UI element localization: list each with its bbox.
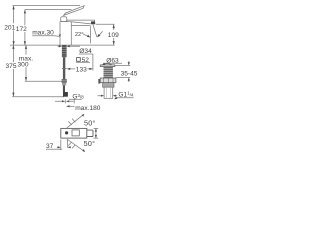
arrowhead G114 underline [114, 97, 117, 100]
angle ref horizontal [71, 25, 90, 27]
svg-text:max.180: max.180 [75, 105, 101, 112]
svg-text:52: 52 [82, 57, 90, 64]
svg-text:35-45: 35-45 [121, 70, 138, 77]
svg-text:172: 172 [16, 26, 27, 33]
arrowhead 22deg leader [87, 35, 90, 38]
hose end dim lines [55, 100, 74, 102]
svg-text:133: 133 [76, 67, 87, 74]
svg-text:37: 37 [46, 143, 54, 150]
arrowhead plan dim down [95, 135, 97, 138]
arrowhead dia34 right [67, 45, 70, 47]
connector block lower [62, 83, 66, 86]
arrowhead 3545 bottom [128, 78, 130, 81]
svg-text:50°: 50° [84, 139, 96, 148]
plan dim line [95, 128, 97, 138]
connector block upper [62, 79, 67, 83]
arrowhead 109 down [113, 41, 115, 45]
plan body rect [61, 128, 87, 138]
label sq52 [77, 58, 81, 62]
arrowhead 172 down [24, 41, 26, 45]
dimension line max300 [25, 45, 27, 81]
extension line max300 bottom [25, 80, 65, 82]
svg-text:Ø63: Ø63 [106, 58, 119, 65]
supply stem [63, 57, 65, 79]
swivel tick upper 2 [72, 119, 75, 123]
svg-text:G11/4: G11/4 [118, 91, 133, 99]
extension line 375 bottom [12, 96, 64, 98]
hose end fitting [63, 92, 68, 97]
arrowhead 375 down [12, 93, 14, 97]
plan hole dot [65, 131, 68, 134]
svg-text:max.30: max.30 [32, 30, 54, 37]
dimension line 201 [13, 6, 15, 46]
arrowhead 133 right [89, 68, 93, 70]
hose end tick2 [73, 99, 75, 103]
extension 35-45 top [115, 65, 131, 67]
deck reference line [10, 44, 115, 46]
dimension line 172 [24, 10, 26, 46]
svg-text:Ø34: Ø34 [79, 48, 92, 55]
arrowhead 375 up [12, 45, 14, 49]
waste side nub [98, 79, 100, 84]
svg-text:300: 300 [18, 62, 29, 69]
arrowhead 201 up [13, 6, 15, 10]
dimension line 375 [12, 45, 14, 96]
arrowhead max300 up [25, 45, 27, 49]
extension 37 right [67, 140, 69, 148]
waste flange plate [100, 65, 115, 67]
underline max30 [32, 35, 55, 37]
arrowhead G114 left [113, 95, 116, 97]
swivel line upper [67, 115, 83, 128]
label 109 bg [107, 31, 120, 38]
arrowhead max30 leader [59, 34, 61, 37]
dimension line 133 [68, 68, 91, 70]
faucet lever bar [64, 6, 85, 16]
extension line 172 top [25, 9, 72, 11]
waste threaded neck [104, 67, 113, 78]
extension 35-45 bottom [116, 77, 130, 79]
faucet spout [67, 20, 95, 24]
underline sq52 [76, 61, 90, 63]
hose end tick1 [64, 99, 66, 103]
extension 37 left [60, 140, 62, 151]
arrowhead 133 left [67, 68, 71, 70]
svg-text:50°: 50° [84, 119, 96, 128]
arrowhead 3545 top [128, 62, 130, 65]
stub 35-45 bottom [128, 81, 130, 82]
leader max30 [55, 35, 59, 38]
angle arc stroke [98, 31, 102, 36]
arrowhead dia63 [102, 63, 105, 66]
angle ref vertical [89, 26, 91, 44]
G114 arrow lines [98, 95, 118, 97]
extension line 133 right [92, 54, 94, 71]
arrowhead G114 right [101, 95, 104, 97]
stem collar [62, 67, 67, 69]
arrowhead swivel lower [82, 149, 85, 152]
arrowhead swivel upper [82, 114, 85, 117]
underline dia34 [79, 53, 93, 55]
arrowhead 37 left [68, 146, 71, 148]
arrowhead dia34 left [59, 45, 62, 47]
hose stem lower [63, 85, 65, 92]
underline dia63 [105, 62, 123, 64]
plan dim ext top [94, 127, 99, 129]
stream line 22deg [93, 24, 97, 37]
arrowhead 37 right [58, 146, 61, 148]
faucet body [60, 22, 74, 45]
waste nut [100, 78, 116, 83]
svg-text:375: 375 [6, 63, 17, 70]
underline 37 [46, 148, 62, 150]
svg-text:109: 109 [108, 32, 119, 39]
arrowhead plan dim up [95, 128, 97, 131]
swivel tick upper 1 [68, 121, 71, 125]
aerator [91, 21, 95, 24]
waste pipe bore lines [106, 87, 110, 98]
arrowhead angle arc [97, 34, 100, 37]
arrowhead max180 [66, 105, 70, 107]
swivel line lower [67, 139, 85, 152]
waste tail pipe [104, 87, 113, 98]
arrowhead max300 down [25, 77, 27, 81]
arrowhead hosedim right [62, 100, 65, 102]
leader max180 [70, 105, 75, 107]
dimension line 37 [57, 146, 71, 148]
extension line 109 top [96, 23, 115, 25]
arrowhead hosedim left [66, 100, 69, 102]
plan dim ext bottom [94, 137, 99, 139]
leader 22deg [83, 34, 89, 37]
faucet lever cap [61, 17, 67, 22]
waste flange dome [103, 64, 112, 65]
shank threads [62, 45, 67, 57]
svg-text:201: 201 [4, 24, 15, 31]
arrowhead 109 up [113, 24, 115, 28]
underline G38 [69, 98, 82, 100]
dia34 arrow lines [58, 45, 81, 47]
dimension line 109 [113, 24, 115, 45]
svg-text:22°: 22° [75, 32, 84, 38]
waste locknut [103, 83, 114, 88]
plan lever rect [72, 130, 79, 136]
stub 35-45 top [128, 61, 130, 62]
underline G114 [116, 97, 134, 99]
arrowhead 172 up [24, 10, 26, 14]
connector block highlight [62, 80, 67, 82]
swivel tick lower 1 [68, 142, 71, 146]
plan spout [87, 130, 93, 136]
swivel tick lower 2 [72, 145, 75, 149]
extension line 201 top [13, 5, 81, 7]
arrowhead 201 down [13, 41, 15, 45]
